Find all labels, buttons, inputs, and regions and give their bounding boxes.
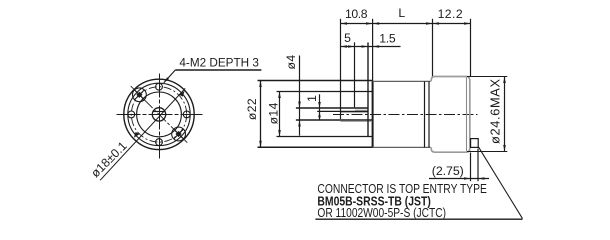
phi24.6 bottom extension line	[467, 151, 507, 153]
phi14 top line	[277, 91, 373, 93]
svg-text:OR 11002W00-5P-S (JCTC): OR 11002W00-5P-S (JCTC)	[317, 206, 446, 220]
shaft flat chord	[153, 111, 165, 113]
extension line F (12.2 right) upper	[470, 19, 472, 76]
shaft flat line	[317, 110, 368, 112]
svg-text:10.8: 10.8	[345, 7, 368, 21]
gearbox top edge	[258, 80, 373, 82]
dim 1 line	[319, 94, 321, 120]
SE pin center blob	[175, 131, 181, 137]
phi14 dimension line	[279, 92, 281, 137]
phi4 arrows (outside)	[298, 102, 301, 109]
svg-text:ø14: ø14	[267, 102, 281, 124]
NW pin X mark	[135, 90, 145, 100]
connector box	[471, 139, 479, 148]
extension line B (5 right)	[354, 42, 356, 107]
inner circle (phi14 boss)	[137, 92, 182, 137]
SE pin hole circle	[172, 127, 186, 141]
svg-text:1: 1	[305, 95, 319, 102]
gray echo line upper	[341, 112, 368, 114]
svg-text:ø4: ø4	[284, 54, 298, 69]
phi14 arrows	[278, 92, 281, 99]
(2.75) arrows (outside)	[464, 177, 471, 180]
M2 hole north	[156, 83, 163, 90]
NW-SE diagonal centerline	[131, 86, 188, 143]
M2 hole south	[156, 139, 163, 146]
motor end-cap joint line	[466, 78, 468, 152]
NW pin center blob	[136, 92, 142, 98]
M2 hole west	[128, 111, 135, 118]
svg-text:L: L	[398, 6, 405, 20]
phi18 dimension diagonal line	[100, 88, 185, 180]
motor joint line 1	[424, 81, 426, 147]
(2.75) dimension line	[429, 178, 489, 180]
phi14 bottom line	[277, 136, 373, 138]
svg-text:ø22: ø22	[245, 98, 259, 120]
shaft circle phi4	[152, 108, 165, 121]
arrows row2: 5 inside	[341, 45, 348, 48]
dim 1 arrows (outside)	[318, 102, 321, 108]
shaft top line	[296, 107, 368, 109]
phi24.6 top extension line	[467, 76, 507, 78]
phi18 arrow NE (tip on bolt circle, pointing inward)	[179, 91, 185, 97]
extension line C (1.5 left)	[367, 43, 369, 137]
phi22 arrows	[259, 81, 262, 88]
gearbox rear face / phi22 dimension line	[260, 81, 262, 148]
extension line F lower ((2.75) left)	[470, 153, 472, 182]
gray echo line lower	[341, 121, 373, 123]
svg-text:ø24.6MAX: ø24.6MAX	[487, 79, 502, 144]
arrows row2: 1.5 outside	[362, 45, 369, 48]
outer circle (gearhead housing)	[124, 79, 194, 149]
shaft step line	[355, 109, 368, 111]
extension line E (L right / 12.2 left)	[432, 19, 434, 77]
NW pin hole circle	[133, 88, 147, 102]
(2.75) extension line right	[477, 149, 479, 182]
vertical crosshair centerline	[159, 74, 161, 159]
svg-text:5: 5	[344, 31, 351, 45]
connector note underline	[315, 218, 522, 220]
motor joint line 2	[428, 81, 430, 147]
SE pin X mark	[174, 129, 184, 139]
second circle (housing step)	[128, 83, 190, 145]
svg-text:12.2: 12.2	[438, 7, 463, 21]
motor front section top (gray)	[373, 80, 431, 82]
4-M2 leader arrowhead at top hole	[164, 77, 169, 82]
centerline of side view	[333, 114, 478, 116]
4-M2 leader line	[164, 70, 176, 83]
extension line D (10.8 right / L left / 1.5 right)	[372, 19, 374, 81]
M2 hole east	[183, 111, 190, 118]
svg-text:1.5: 1.5	[379, 31, 396, 45]
extension line A (10.8/5 left)	[340, 19, 342, 119]
connector leader line	[478, 147, 522, 219]
gearbox body phi22	[258, 81, 373, 148]
phi24.6 dimension line	[504, 77, 506, 152]
phi24.6 arrows	[503, 77, 506, 84]
gearbox front face (right)	[372, 81, 374, 148]
4-M2 note underline	[175, 69, 261, 71]
arrows row1	[341, 22, 348, 25]
bolt circle phi18 (chain line)	[131, 87, 186, 142]
gearbox bottom edge	[258, 146, 373, 148]
svg-text:(2.75): (2.75)	[432, 164, 464, 178]
motor front section bottom (gray)	[373, 146, 431, 148]
dimension row 2 line (5 / 1.5)	[341, 46, 401, 48]
phi4 dimension line	[299, 56, 301, 136]
horizontal crosshair centerline	[117, 114, 203, 116]
shaft bottom line	[296, 119, 373, 121]
motor rear can (gray, rounded)	[431, 77, 470, 153]
top dimension row 1 line	[341, 23, 471, 25]
phi18 arrow SW	[134, 132, 140, 138]
svg-text:4-M2 DEPTH 3: 4-M2 DEPTH 3	[179, 56, 259, 70]
